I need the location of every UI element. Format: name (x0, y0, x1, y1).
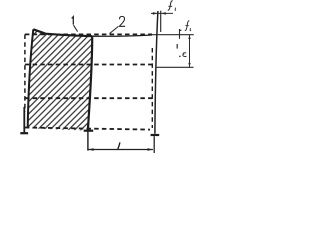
small tick above rotated label (176, 44, 178, 49)
original column top reference line (160, 11, 162, 32)
support foot left (20, 107, 28, 133)
label l (118, 142, 120, 149)
label 1 with leader (72, 17, 78, 32)
original roof reference line (solid extension) (152, 34, 194, 36)
rotated label (epsilon-like) (179, 56, 181, 58)
top chord solid segment (deformed beam) (92, 35, 152, 36)
wall left edge (28, 29, 34, 128)
tick crossing roof reference (179, 29, 181, 39)
floor line 2 (dashed) (25, 97, 153, 99)
bottom line (dashed) (25, 128, 150, 130)
label f_t (168, 1, 173, 11)
label f_r (right) (180, 21, 191, 31)
original top line (dashed) (25, 33, 152, 35)
label 2 with leader (110, 16, 126, 33)
wall top edge (33, 29, 92, 36)
first storey line extension (155, 66, 193, 68)
frame right column (deformed) (155, 11, 158, 134)
top displacement dimension f_t (151, 1, 176, 15)
support foot middle with extension (84, 124, 94, 151)
bottom span dimension l (88, 142, 153, 151)
storey height dimension (177, 35, 191, 67)
floor line 1 (dashed) (25, 64, 153, 66)
wall panel (hatched, deformed position) (28, 29, 93, 130)
original wall left edge (dashed) (24, 35, 26, 113)
original right column (dashed) (151, 48, 153, 128)
support foot right with extension (151, 135, 160, 153)
wall right edge (88, 36, 92, 130)
